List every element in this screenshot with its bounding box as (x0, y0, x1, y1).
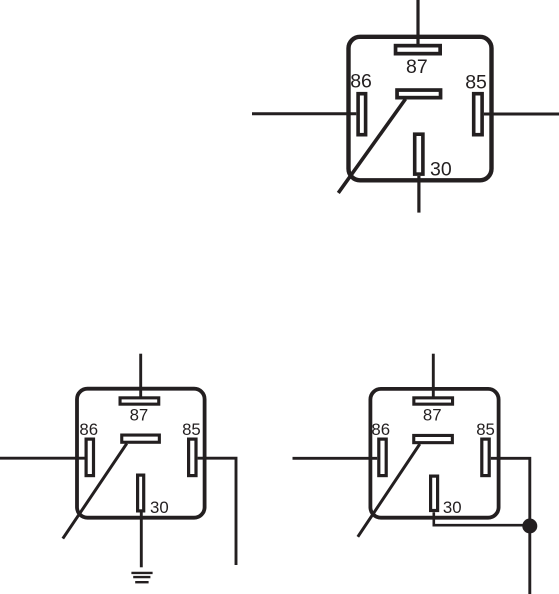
svg-text:86: 86 (350, 71, 372, 93)
terminal 30 (K1) (415, 134, 423, 174)
svg-text:85: 85 (476, 420, 495, 439)
wire K1 pin 86 left lead (252, 112, 356, 115)
svg-text:86: 86 (371, 420, 390, 439)
contact bar 87 (K1) (396, 46, 441, 54)
junction dot (522, 519, 537, 534)
terminal 85 (K2) (189, 439, 196, 476)
terminal 30 (K3) (431, 476, 438, 510)
svg-text:87: 87 (406, 56, 428, 78)
terminal 86 (K2) (86, 439, 93, 476)
wire K3 pin 87 top lead (432, 354, 435, 397)
armature switch arm (K1) (338, 99, 405, 193)
wire K1 pin 85 right lead (484, 113, 559, 116)
svg-text:86: 86 (79, 420, 98, 439)
relay K3 body (370, 389, 498, 518)
relay K1 body (349, 37, 492, 181)
svg-text:85: 85 (182, 420, 201, 439)
terminal 85 (K1) (474, 94, 482, 135)
armature switch arm (K2) (63, 444, 127, 539)
terminal 86 (K1) (358, 94, 366, 135)
wire K3 pin 86 left lead (293, 457, 378, 460)
terminal 86 (K3) (379, 439, 386, 476)
svg-text:85: 85 (465, 72, 487, 94)
contact bar 87 (K3) (414, 398, 453, 404)
svg-text:30: 30 (430, 159, 452, 181)
svg-text:87: 87 (423, 406, 442, 425)
relay K2 body (77, 389, 205, 518)
wire K1 pin 30 bottom lead (417, 176, 420, 213)
svg-text:87: 87 (130, 405, 149, 424)
svg-text:30: 30 (443, 498, 462, 517)
wire K3 pin 85 lead right then down to bottom edge (491, 458, 530, 594)
wire K1 pin 87 top lead (416, 0, 419, 44)
terminal 85 (K3) (482, 439, 489, 476)
wire K2 pin 85 lead right then down (198, 458, 236, 565)
terminal 30 (K2) (138, 475, 144, 511)
common contact bar (K2) (122, 435, 160, 442)
common contact bar (K3) (414, 435, 453, 442)
svg-text:30: 30 (150, 498, 169, 517)
wire K2 pin 86 left lead (0, 457, 85, 460)
armature switch arm (K3) (358, 444, 420, 537)
contact bar 87 (K2) (120, 398, 159, 404)
wire K3 pin 30 jumper to pin 85 lead (434, 512, 530, 525)
wire K2 pin 30 to ground (140, 513, 143, 568)
common contact bar (K1) (397, 90, 441, 98)
ground symbol (131, 573, 152, 582)
wire K2 pin 87 top lead (139, 354, 142, 397)
